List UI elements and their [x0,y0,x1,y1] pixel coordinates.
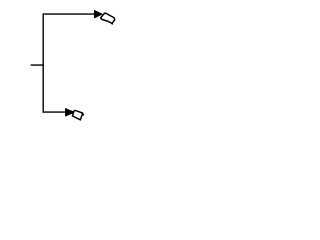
arrowhead: bottom branch [65,108,74,116]
node: top rotated box [100,12,115,25]
wire: vertical bus [42,13,44,112]
wire: top branch [43,13,95,15]
wire: left input stub [31,64,44,66]
node: bottom rotated box with beak [72,110,84,120]
arrowhead: top branch [94,10,102,18]
wire: bottom branch [43,111,67,113]
